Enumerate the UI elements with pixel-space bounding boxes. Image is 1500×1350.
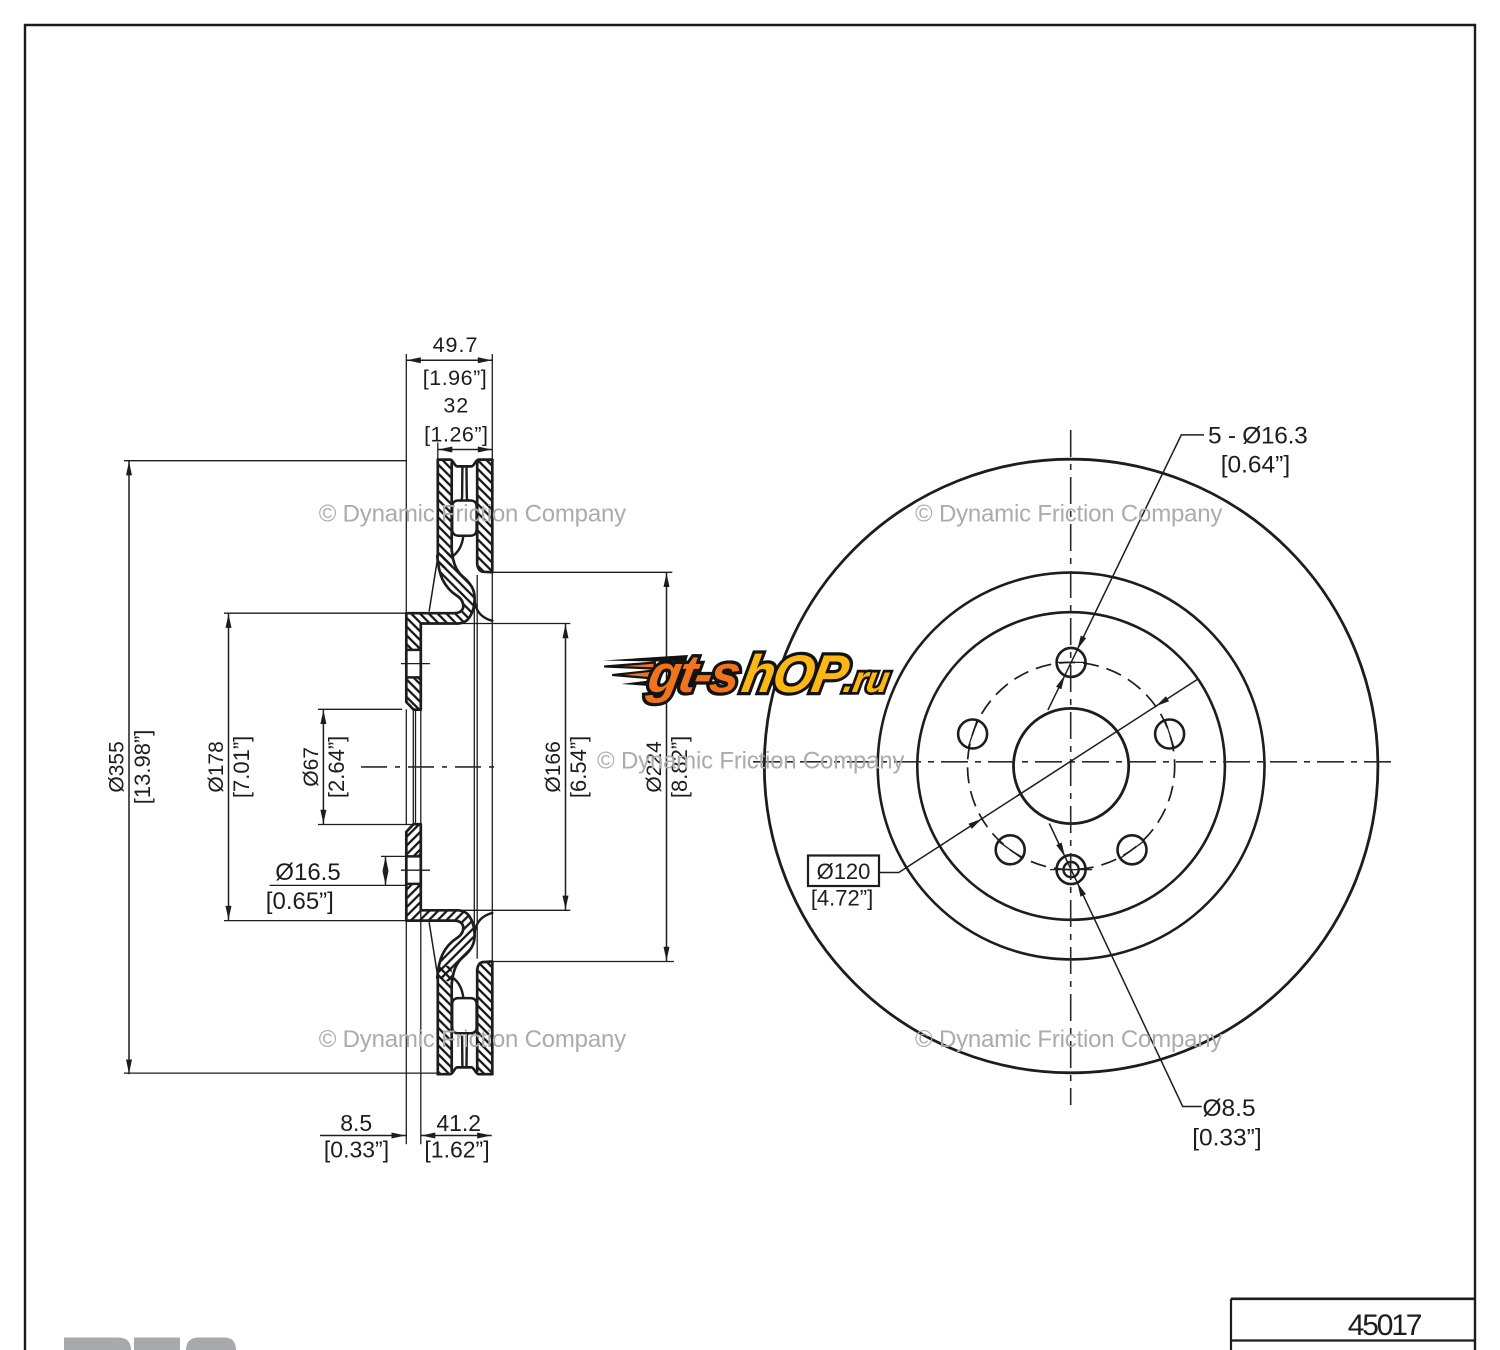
circle O178 hat edge — [917, 612, 1225, 920]
svg-text:gt-s: gt-s — [643, 645, 744, 704]
wordmark — [643, 645, 896, 704]
dimension 32 [1.26"] rotor thickness — [424, 394, 492, 453]
svg-text:41.2: 41.2 — [436, 1110, 481, 1136]
svg-text:© Dynamic Friction Company: © Dynamic Friction Company — [319, 500, 626, 527]
bolt hole 5 of 5 (O16.3) — [1118, 835, 1147, 864]
DFC logo (partially cropped) — [64, 1338, 236, 1350]
dimension O166 [6.54"] hat inner diameter — [542, 624, 591, 911]
section outlines — [406, 460, 492, 1075]
bolt hole 3 of 5 (O16.3) — [958, 720, 987, 749]
svg-text:hOP: hOP — [738, 645, 854, 704]
svg-text:[0.65”]: [0.65”] — [266, 888, 334, 915]
circle O224 pad inner edge — [878, 573, 1265, 960]
leader 5-O16.3 — [1048, 435, 1204, 710]
svg-text:[1.26”]: [1.26”] — [424, 423, 488, 447]
rotor cross-section: hatched metal regions — [406, 460, 492, 1075]
svg-text:8.5: 8.5 — [340, 1110, 372, 1136]
title block — [1231, 1299, 1475, 1350]
svg-text:© Dynamic Friction Company: © Dynamic Friction Company — [597, 747, 904, 774]
svg-text:[0.64”]: [0.64”] — [1221, 452, 1290, 479]
svg-text:49.7: 49.7 — [433, 333, 479, 357]
svg-text:[1.62”]: [1.62”] — [424, 1137, 489, 1163]
svg-text:Ø120: Ø120 — [817, 859, 871, 884]
bolt hole 4 of 5 (O16.3) — [996, 835, 1025, 864]
section centreline — [361, 766, 500, 768]
svg-text:© Dynamic Friction Company: © Dynamic Friction Company — [915, 1026, 1222, 1053]
svg-text:.ru: .ru — [841, 658, 894, 700]
bolt hole 1 of 5 (O16.3) — [1057, 648, 1086, 677]
bolt circle O120 (dashed) — [968, 662, 1175, 869]
dimension O224 [8.82"] pad inner diameter — [643, 572, 692, 961]
thin extension / projection lines — [124, 354, 674, 1144]
svg-text:Ø355: Ø355 — [106, 741, 129, 792]
svg-text:[0.33”]: [0.33”] — [1192, 1124, 1261, 1151]
svg-text:[1.96”]: [1.96”] — [423, 366, 487, 390]
gt-shop.ru logo — [603, 645, 896, 704]
svg-text:Ø8.5: Ø8.5 — [1203, 1095, 1256, 1122]
svg-text:32: 32 — [443, 394, 469, 418]
bolt hole tangent ticks — [968, 662, 1174, 869]
dimension O16.5 [0.65"] flange bolt hole — [266, 856, 389, 915]
svg-text:[13.98”]: [13.98”] — [130, 730, 155, 805]
leader O120 — [879, 680, 1197, 873]
svg-text:© Dynamic Friction Company: © Dynamic Friction Company — [915, 500, 1222, 527]
dimension O67 [2.64"] centre bore — [300, 709, 349, 824]
svg-text:Ø67: Ø67 — [300, 747, 323, 787]
speed wing — [603, 655, 688, 686]
outer circle O355 — [764, 459, 1378, 1073]
svg-text:[4.72”]: [4.72”] — [811, 886, 873, 911]
white cut-outs: vent channel, flange bolt holes — [406, 463, 492, 1072]
bolt hole 2 of 5 (O16.3) — [1155, 720, 1184, 749]
svg-text:© Dynamic Friction Company: © Dynamic Friction Company — [319, 1026, 626, 1053]
leader O8.5 — [1049, 824, 1201, 1107]
svg-text:[7.01”]: [7.01”] — [229, 736, 254, 798]
svg-text:Ø16.5: Ø16.5 — [275, 859, 340, 886]
svg-text:[2.64”]: [2.64”] — [324, 736, 349, 798]
front view centrelines — [753, 430, 1397, 1105]
dimension O355 [13.98"] outer diameter — [106, 461, 156, 1074]
svg-text:5 - Ø16.3: 5 - Ø16.3 — [1208, 422, 1307, 449]
svg-text:[6.54”]: [6.54”] — [566, 736, 591, 798]
svg-text:[0.33”]: [0.33”] — [324, 1137, 389, 1163]
centre bore O67 — [1014, 708, 1129, 823]
locating hole O8.5 with counterbore — [1057, 855, 1086, 884]
svg-text:Ø178: Ø178 — [205, 741, 228, 792]
dimension O178 [7.01"] hat diameter — [205, 613, 254, 920]
svg-text:45017: 45017 — [1348, 1309, 1422, 1342]
dimension 49.7 [1.96"] overall width — [406, 333, 492, 390]
svg-text:Ø166: Ø166 — [542, 741, 565, 792]
dimension 41.2 [1.62"] offset — [421, 1110, 492, 1163]
dimension 8.5 [0.33"] flange thickness — [320, 1110, 406, 1163]
